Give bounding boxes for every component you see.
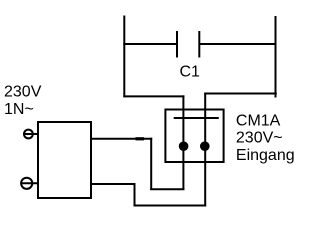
internal bridge bar of CM1A — [174, 117, 219, 119]
wire: capacitor left lead — [123, 43, 177, 45]
terminal dot right of CM1A — [200, 141, 210, 151]
wire: right motor rail (vertical) — [275, 16, 277, 98]
terminal dot left of CM1A — [179, 141, 189, 151]
label CM1A 230V~ Eingang — [236, 112, 295, 163]
wire: supply upper output (horizontal) — [91, 138, 152, 140]
supply box outline — [38, 122, 91, 198]
wire: horizontal to left terminal drop — [150, 188, 184, 190]
wire: left motor rail (vertical) — [123, 16, 125, 98]
wire: bottom run to right terminal — [134, 205, 207, 207]
terminal L of supply (circle) — [24, 130, 33, 139]
wire: right rail to right terminal (horizontal) — [204, 93, 277, 95]
wire: terminal N bar into supply box — [21, 182, 39, 184]
capacitor C1 right plate — [198, 31, 200, 58]
wire: left rail to left terminal (horizontal) — [123, 95, 184, 97]
wire: left terminal vertical drop — [182, 95, 184, 190]
terminal N of supply (circle) — [21, 178, 32, 189]
junction tick on upper wire — [136, 137, 145, 140]
wire: lower jog vertical — [134, 183, 136, 206]
capacitor C1 left plate — [176, 31, 178, 58]
wire: right terminal vertical drop — [204, 93, 206, 207]
wire: capacitor right lead — [199, 43, 276, 45]
svg-text:Eingang: Eingang — [236, 147, 295, 164]
svg-text:230V: 230V — [4, 84, 42, 101]
wire: supply lower output (horizontal) — [91, 183, 136, 185]
svg-text:1N~: 1N~ — [4, 101, 34, 118]
svg-text:C1: C1 — [180, 64, 201, 81]
wire: vertical jog down — [150, 138, 152, 190]
connector block CM1A outline — [165, 110, 223, 163]
svg-text:CM1A: CM1A — [236, 112, 281, 129]
svg-text:230V~: 230V~ — [236, 130, 283, 147]
wire: terminal L bar into supply box — [23, 133, 38, 135]
label 230V 1N~ — [4, 84, 42, 118]
